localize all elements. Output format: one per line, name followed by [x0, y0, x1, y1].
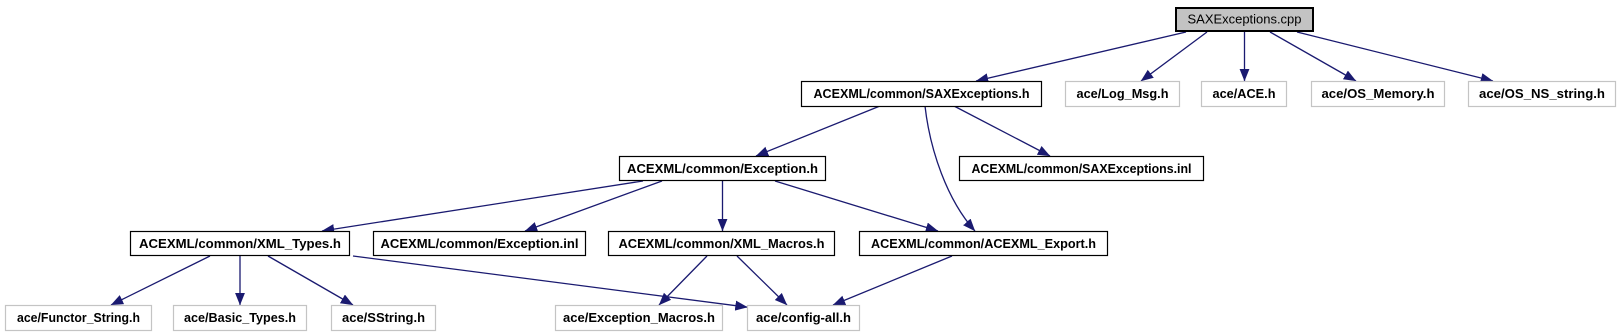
node H: ACEXML/common/XML_Types.h [131, 232, 350, 256]
wire edge A->G [954, 106, 1050, 156]
wire edge F->I [525, 181, 662, 231]
node E: ace/OS_NS_string.h [1469, 82, 1616, 107]
svg-text:ace/ACE.h: ace/ACE.h [1213, 86, 1276, 101]
wire edge F->J [722, 181, 724, 231]
wire edge A->F [756, 106, 880, 156]
svg-text:ACEXML/common/XML_Types.h: ACEXML/common/XML_Types.h [139, 236, 341, 251]
svg-text:ACEXML/common/Exception.inl: ACEXML/common/Exception.inl [381, 236, 579, 251]
svg-text:ACEXML/common/ACEXML_Export.h: ACEXML/common/ACEXML_Export.h [871, 236, 1096, 251]
node G: ACEXML/common/SAXExceptions.inl [960, 157, 1204, 181]
node P: ace/config-all.h [748, 306, 860, 331]
svg-text:ace/config-all.h: ace/config-all.h [756, 310, 851, 325]
node B: ace/Log_Msg.h [1066, 82, 1180, 107]
wire edge F->K [775, 181, 938, 231]
wire edge R->D [1270, 32, 1356, 81]
node F: ACEXML/common/Exception.h [620, 157, 826, 181]
svg-text:ace/OS_NS_string.h: ace/OS_NS_string.h [1479, 86, 1605, 101]
wire edge R->B [1141, 32, 1207, 81]
wire edge R->C [1244, 32, 1246, 81]
svg-text:ACEXML/common/SAXExceptions.in: ACEXML/common/SAXExceptions.inl [972, 161, 1192, 176]
svg-text:ace/Functor_String.h: ace/Functor_String.h [17, 310, 140, 325]
wire edge J->P [737, 256, 787, 305]
node O: ace/Exception_Macros.h [556, 306, 723, 331]
wire edge H->M [239, 256, 241, 305]
node L: ace/Functor_String.h [6, 306, 152, 331]
svg-text:SAXExceptions.cpp: SAXExceptions.cpp [1188, 12, 1302, 27]
wire edge H->L [111, 256, 210, 305]
wire edge F->H [322, 181, 643, 231]
wire edge J->O [659, 256, 707, 305]
svg-text:ace/OS_Memory.h: ace/OS_Memory.h [1322, 86, 1435, 101]
svg-text:ace/Basic_Types.h: ace/Basic_Types.h [184, 310, 296, 325]
svg-text:ACEXML/common/XML_Macros.h: ACEXML/common/XML_Macros.h [619, 236, 825, 251]
wire edge A->K [925, 106, 975, 231]
node A: ACEXML/common/SAXExceptions.h [802, 82, 1042, 107]
svg-text:ace/SString.h: ace/SString.h [342, 310, 425, 325]
wire edge R->E [1297, 32, 1493, 81]
svg-text:ACEXML/common/SAXExceptions.h: ACEXML/common/SAXExceptions.h [814, 86, 1030, 101]
node J: ACEXML/common/XML_Macros.h [609, 232, 835, 256]
wire edge R->A [976, 32, 1186, 81]
svg-text:ace/Log_Msg.h: ace/Log_Msg.h [1077, 86, 1169, 101]
svg-text:ace/Exception_Macros.h: ace/Exception_Macros.h [563, 310, 715, 325]
wire edge H->P [353, 256, 748, 307]
node D: ace/OS_Memory.h [1312, 82, 1445, 107]
node R: SAXExceptions.cpp [1176, 8, 1313, 31]
node C: ace/ACE.h [1202, 82, 1287, 107]
node N: ace/SString.h [332, 306, 436, 331]
node I: ACEXML/common/Exception.inl [374, 232, 586, 256]
node M: ace/Basic_Types.h [174, 306, 307, 331]
wire edge K->P [833, 256, 952, 305]
svg-text:ACEXML/common/Exception.h: ACEXML/common/Exception.h [627, 161, 818, 176]
wire edge H->N [268, 256, 353, 305]
node K: ACEXML/common/ACEXML_Export.h [860, 232, 1108, 256]
